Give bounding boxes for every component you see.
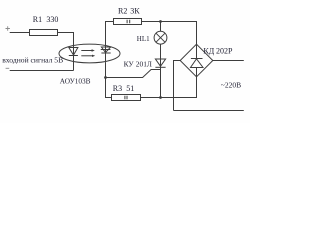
label КД 202Р	[203, 46, 233, 55]
wire R2 left terminal to photodinistor	[106, 22, 114, 48]
wire node A down to HL1	[160, 22, 162, 32]
lamp HL1	[154, 31, 167, 44]
optocoupler U1 body	[59, 44, 120, 63]
wire photodinistor anode down to R3 left	[106, 63, 112, 98]
bridge rectifier VD1 diamond	[180, 44, 213, 77]
svg-text:~220В: ~220В	[221, 80, 241, 89]
light arrow 2	[81, 55, 95, 57]
svg-text:R1: R1	[33, 15, 42, 24]
junction node gate	[104, 76, 107, 79]
bridge diode symbol	[191, 44, 204, 77]
wire plus to R1	[10, 32, 30, 34]
svg-text:входной сигнал 5В: входной сигнал 5В	[2, 55, 63, 64]
svg-text:HL1: HL1	[137, 35, 150, 43]
R2 power marks	[127, 20, 130, 24]
label HL1	[137, 35, 150, 43]
wire LED cathode to minus terminal	[10, 70, 74, 72]
wire node A to bridge top vertex	[161, 22, 197, 45]
wire gate node to thyristor gate	[106, 70, 161, 78]
wire HL1 to thyristor anode	[160, 44, 162, 59]
wire R2 right to node A	[142, 21, 161, 23]
svg-text:КД: КД	[203, 46, 214, 55]
wire R1 to LED anode	[58, 33, 74, 48]
wire R3 right to bridge bottom vertex	[141, 77, 197, 98]
junction node cathode	[159, 96, 162, 99]
svg-text:51: 51	[126, 84, 134, 93]
svg-text:R3: R3	[113, 84, 122, 93]
plus terminal	[6, 26, 10, 30]
label R1 330	[33, 15, 59, 24]
label R2 3К	[118, 6, 140, 15]
svg-text:201Л: 201Л	[136, 59, 152, 68]
LED of optocoupler U1	[69, 48, 78, 71]
label ~220В	[221, 80, 241, 89]
label АОУ103В	[60, 77, 91, 86]
light arrow 1	[81, 49, 95, 51]
resistor R1	[30, 30, 58, 36]
label R3 51	[113, 84, 134, 93]
wire bridge right vertex to AC terminal	[213, 60, 244, 62]
svg-text:R2: R2	[118, 6, 127, 15]
svg-text:3К: 3К	[130, 6, 140, 15]
label входной сигнал 5В	[2, 55, 63, 64]
svg-text:202Р: 202Р	[216, 46, 233, 55]
svg-text:330: 330	[46, 15, 58, 24]
wire bottom AC rail	[174, 110, 244, 112]
svg-text:АОУ103В: АОУ103В	[60, 77, 91, 86]
resistor R3	[112, 95, 141, 101]
photodinistor of optocoupler U1	[101, 47, 111, 63]
label КУ 201Л	[124, 59, 152, 68]
wire bridge left vertex to bottom rail	[174, 61, 181, 111]
svg-text:КУ: КУ	[124, 59, 135, 68]
R3 power marks	[125, 96, 127, 100]
thyristor VS1 КУ201Л	[155, 59, 165, 98]
resistor R2	[114, 19, 142, 25]
junction node A	[159, 20, 162, 23]
minus terminal	[6, 67, 10, 69]
